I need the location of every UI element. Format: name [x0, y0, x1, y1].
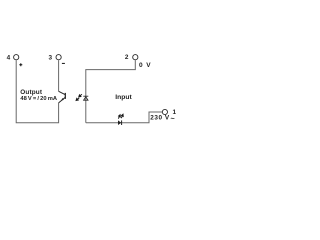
svg-text:2: 2 [125, 54, 129, 61]
svg-text:V: V [146, 62, 151, 69]
svg-text:Output: Output [20, 89, 43, 96]
svg-text:4: 4 [7, 55, 11, 62]
svg-text:~: ~ [171, 114, 175, 123]
svg-text:Input: Input [115, 94, 132, 101]
svg-text:0: 0 [139, 62, 143, 69]
svg-text:3: 3 [48, 55, 52, 62]
svg-text:230 V: 230 V [150, 115, 170, 122]
svg-text:48 V = / 20 mA: 48 V = / 20 mA [20, 96, 57, 102]
